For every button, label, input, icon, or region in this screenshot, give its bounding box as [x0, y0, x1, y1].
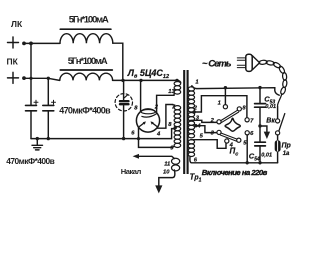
svg-text:Включение на 220в: Включение на 220в [202, 168, 268, 177]
svg-text:10: 10 [163, 169, 170, 175]
svg-text:1а: 1а [283, 151, 290, 157]
svg-text:5Гн*100мА: 5Гн*100мА [68, 56, 108, 67]
svg-text:470мкФ*400в: 470мкФ*400в [6, 156, 55, 166]
svg-text:ЛК: ЛК [11, 19, 23, 29]
svg-text:Накал: Накал [121, 167, 142, 176]
svg-text:0,01: 0,01 [265, 104, 276, 110]
svg-text:5Гн*100мА: 5Гн*100мА [69, 14, 109, 25]
svg-text:Вк: Вк [266, 118, 275, 125]
svg-text:ПК: ПК [7, 57, 19, 67]
svg-text:470мкФ*400в: 470мкФ*400в [59, 106, 111, 116]
svg-text:1: 1 [195, 79, 198, 85]
svg-text:1: 1 [218, 101, 221, 107]
svg-text:Пр: Пр [282, 143, 292, 150]
svg-text:~ Сеть: ~ Сеть [202, 58, 232, 69]
svg-text:0,01: 0,01 [261, 153, 272, 159]
svg-text:13: 13 [168, 89, 175, 95]
svg-text:11: 11 [164, 162, 170, 168]
